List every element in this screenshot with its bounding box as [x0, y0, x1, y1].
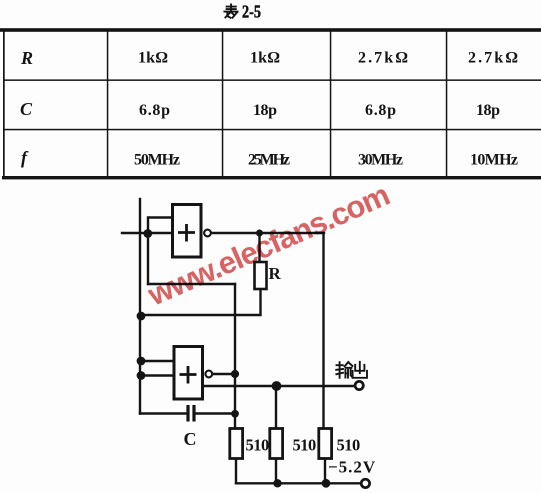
- svg-text:510: 510: [337, 436, 361, 455]
- wire 510#2 bottom stub: [275, 459, 277, 484]
- junction dot at left rail / R bottom: [137, 312, 146, 321]
- junction dot at capacitor node: [231, 410, 239, 418]
- wire feedback horizontal: [148, 283, 235, 285]
- svg-text:2-5: 2-5: [242, 2, 261, 22]
- svg-text:6.8p: 6.8p: [365, 102, 396, 119]
- svg-text:2.7kΩ: 2.7kΩ: [358, 50, 408, 67]
- wire feedback down from input node: [147, 234, 149, 284]
- resistor 510 #3 body: [319, 429, 332, 459]
- svg-text:6.8p: 6.8p: [139, 102, 170, 119]
- junction dot at gate2 output node: [231, 370, 239, 378]
- wire 510#1 bottom stub: [235, 459, 237, 484]
- wire left rail (node A): [139, 199, 141, 414]
- wire gate1 input stub: [122, 232, 171, 234]
- svg-text:18p: 18p: [253, 102, 277, 119]
- svg-text:2.7kΩ: 2.7kΩ: [468, 50, 518, 67]
- svg-text:510: 510: [246, 436, 270, 455]
- wire gate2 inverted output: [213, 373, 234, 375]
- bottom rail terminal circle: [361, 479, 369, 487]
- svg-text:510: 510: [293, 436, 317, 455]
- label 输出 (output): [336, 362, 367, 378]
- junction dot at bottom rail / 510#2: [273, 479, 281, 487]
- svg-text:1kΩ: 1kΩ: [138, 50, 168, 67]
- output bubble of U2: [205, 371, 212, 378]
- svg-text:30MHz: 30MHz: [358, 152, 403, 169]
- junction dot at gate2 input 2: [137, 371, 146, 380]
- table top border: [0, 28, 541, 32]
- wire gate2 output node down to resistor: [234, 374, 236, 429]
- capacitor C plates: [188, 405, 194, 422]
- wire output line: [203, 385, 355, 387]
- wire 510#3 bottom stub: [324, 459, 326, 484]
- wire right rail: [322, 233, 324, 429]
- junction dot at R top: [256, 230, 263, 237]
- table left border: [3, 29, 5, 178]
- wire 510#2 stub: [275, 387, 277, 429]
- svg-text:18p: 18p: [476, 102, 500, 119]
- svg-text:25MHz: 25MHz: [248, 152, 290, 169]
- junction dot at gate2 input 1: [137, 357, 146, 366]
- wire feedback vertical to gate2 output node: [234, 284, 236, 373]
- svg-text:−5.2V: −5.2V: [328, 458, 376, 477]
- svg-text:f: f: [21, 148, 29, 168]
- svg-text:C: C: [184, 429, 197, 449]
- wire R top stub: [258, 234, 260, 262]
- table bottom border: [2, 176, 541, 179]
- svg-text:1kΩ: 1kΩ: [250, 50, 280, 67]
- wire capacitor left: [140, 412, 187, 414]
- svg-text:R: R: [269, 264, 282, 283]
- op-amp gate U2: [174, 347, 203, 400]
- resistor R body: [255, 262, 267, 289]
- table column line 4: [446, 31, 448, 176]
- wire gate2 input 1: [141, 360, 172, 362]
- svg-text:50MHz: 50MHz: [134, 152, 180, 169]
- table row line 2: [3, 129, 541, 131]
- wire bottom rail (-5.2V): [236, 482, 360, 484]
- junction dot at gate1 input node: [143, 229, 152, 238]
- svg-text:R: R: [20, 48, 33, 68]
- junction dot at bottom rail / 510#3: [322, 479, 331, 488]
- op-amp gate U1: [173, 205, 202, 258]
- table column line 1: [107, 31, 109, 176]
- table row line 1: [3, 79, 541, 81]
- table column line 2: [222, 31, 224, 176]
- wire gate1 output horizontal: [212, 232, 324, 234]
- output terminal circle: [355, 381, 363, 389]
- resistor 510 #1 body: [230, 429, 243, 459]
- output bubble of U1: [204, 230, 211, 237]
- wire R bottom to left rail: [141, 289, 261, 315]
- wire gate2 input 2: [141, 374, 172, 376]
- svg-text:C: C: [20, 99, 33, 119]
- circuit wires and components: [122, 199, 360, 483]
- table title 表 2-5: [224, 4, 237, 17]
- table column line 3: [330, 31, 332, 176]
- svg-text:10MHz: 10MHz: [470, 152, 518, 169]
- junction dot at output / 510#2: [272, 381, 282, 391]
- wire capacitor right: [196, 412, 235, 414]
- resistor 510 #2 body: [270, 429, 283, 459]
- wire gate1 input branch: [148, 218, 171, 233]
